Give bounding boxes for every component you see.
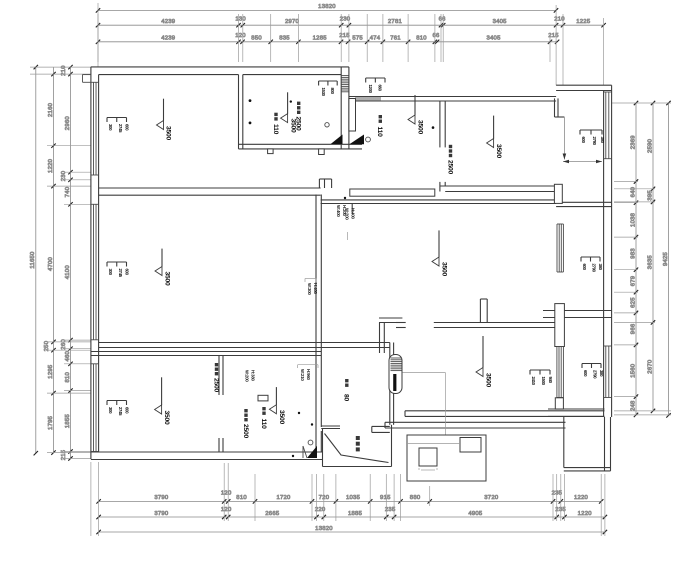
svg-text:395: 395 — [647, 190, 653, 201]
door jamb tab2 — [319, 149, 325, 155]
door leaf bath2 — [349, 99, 356, 132]
wall B corridor right — [321, 200, 556, 204]
label xiaChen80 stair — [343, 379, 350, 402]
svg-text:4100: 4100 — [65, 265, 71, 280]
svg-text:1038: 1038 — [630, 212, 636, 227]
svg-text:1225: 1225 — [576, 19, 591, 25]
svg-text:H:200: H:200 — [342, 205, 347, 217]
schedule dashed line — [407, 443, 460, 445]
wall wing top — [556, 85, 612, 90]
wall bedroom2 right pier — [555, 98, 565, 117]
svg-text:850: 850 — [251, 36, 262, 42]
window tag wing3 — [582, 364, 604, 380]
svg-text:1295: 1295 — [48, 364, 54, 379]
schedule inner square — [419, 448, 437, 466]
svg-text:110: 110 — [272, 124, 279, 135]
svg-text:2745: 2745 — [118, 124, 123, 133]
marker 3500 dining — [432, 230, 447, 276]
svg-text:640: 640 — [630, 186, 636, 197]
dimension right chain2 — [647, 101, 655, 413]
wall bedroom3 bottom outer — [385, 422, 566, 428]
window left W1 — [91, 82, 99, 175]
svg-text:720: 720 — [319, 495, 330, 501]
marker 3500 bedroom1 — [157, 99, 172, 141]
label xiaChen110 bath1 — [272, 113, 279, 135]
svg-text:2790: 2790 — [593, 370, 598, 379]
svg-text:600: 600 — [583, 370, 588, 377]
svg-text:1220: 1220 — [574, 495, 589, 501]
svg-text:1220: 1220 — [48, 158, 54, 173]
svg-text:1200: 1200 — [368, 85, 373, 94]
lintel above wall B — [350, 189, 435, 196]
window left W3 — [91, 364, 99, 452]
svg-text:W:200: W:200 — [245, 370, 250, 382]
svg-text:474: 474 — [370, 36, 381, 42]
schedule table box — [407, 435, 486, 481]
wall top-right-section — [349, 97, 556, 102]
wall left outer — [90, 67, 92, 459]
dimension top row1 total 13820 — [96, 4, 558, 12]
svg-text:915: 915 — [380, 495, 391, 501]
dimension right chain1 — [630, 101, 638, 417]
door swing black triangle bath2 — [349, 135, 364, 145]
svg-text:2160: 2160 — [48, 102, 54, 117]
svg-text:3405: 3405 — [486, 36, 501, 42]
wall wing bottom — [564, 468, 611, 471]
svg-text:W:210: W:210 — [300, 369, 305, 381]
svg-text:740: 740 — [65, 186, 71, 197]
svg-text:2500: 2500 — [212, 378, 219, 393]
window left W2 — [91, 204, 99, 339]
door swing black triangle bath1 — [331, 135, 343, 145]
svg-text:4239: 4239 — [161, 36, 175, 42]
pier bump wall A — [319, 179, 331, 188]
wall partition V1 bath1-left — [239, 75, 243, 149]
svg-text:1720: 1720 — [276, 495, 291, 501]
label W200 H400 dining — [345, 208, 356, 240]
window tag bath2 top — [366, 78, 385, 94]
svg-text:3500: 3500 — [163, 411, 170, 426]
svg-text:2745: 2745 — [118, 269, 123, 278]
svg-text:4239: 4239 — [161, 19, 175, 25]
svg-text:983: 983 — [630, 248, 636, 259]
svg-text:880: 880 — [410, 495, 421, 501]
svg-text:600: 600 — [124, 124, 129, 131]
wall corridor right jog — [379, 318, 402, 353]
dot bedroom2 — [432, 126, 435, 129]
svg-text:3405: 3405 — [493, 19, 508, 25]
wall M2b rooms top — [91, 352, 321, 356]
dimension left chain B — [44, 67, 56, 455]
wall wing right outer — [611, 85, 613, 417]
marker 3500 bath1 — [281, 92, 297, 133]
wall A corridor left — [99, 188, 321, 195]
fixture circle bath-bottom — [308, 440, 313, 445]
svg-text:2500: 2500 — [295, 117, 302, 132]
svg-text:4700: 4700 — [48, 256, 54, 271]
extension lines bottom — [91, 462, 605, 536]
svg-text:3500: 3500 — [440, 262, 447, 277]
dot bath1 c — [290, 100, 292, 102]
svg-text:380: 380 — [600, 137, 605, 144]
svg-text:11650: 11650 — [30, 251, 36, 269]
svg-text:3500: 3500 — [495, 144, 502, 159]
svg-text:H:380: H:380 — [251, 370, 256, 382]
svg-text:110: 110 — [376, 127, 383, 138]
svg-text:1855: 1855 — [65, 414, 71, 429]
svg-text:3500: 3500 — [165, 126, 172, 141]
pier wing left1 — [554, 184, 562, 203]
svg-text:3635: 3635 — [647, 255, 653, 270]
schedule inner rect — [460, 438, 481, 453]
dimension left chain C — [61, 65, 73, 461]
svg-text:13820: 13820 — [318, 4, 336, 10]
window wing right W4 — [604, 92, 612, 159]
door jamb tab1 — [268, 149, 274, 154]
svg-text:3500: 3500 — [164, 272, 171, 287]
window tag wing1 — [580, 130, 605, 146]
svg-text:3500: 3500 — [417, 120, 424, 135]
window tag wing2 — [581, 257, 603, 273]
svg-text:2590: 2590 — [647, 138, 653, 153]
svg-text:1560: 1560 — [630, 363, 636, 378]
svg-text:2745: 2745 — [118, 407, 123, 416]
sill mark top-left — [83, 75, 91, 83]
label menDongKuan2500 bedroom2 door — [446, 145, 453, 175]
stub elevator bottom-left — [321, 426, 340, 429]
wall bedroom3 top — [396, 323, 555, 328]
dimension top row3 chain — [96, 33, 560, 44]
wall bedroom2 left stub — [440, 182, 445, 192]
svg-text:600: 600 — [124, 269, 129, 276]
svg-text:W:400: W:400 — [336, 205, 341, 217]
dimension bottom row2 chain — [96, 507, 607, 519]
svg-text:2369: 2369 — [630, 135, 636, 149]
svg-text:66: 66 — [432, 33, 440, 39]
pier wing left2 — [555, 304, 565, 347]
svg-text:2500: 2500 — [242, 424, 249, 439]
svg-text:13820: 13820 — [315, 526, 333, 532]
partition stub below wall B — [351, 204, 353, 215]
wall living-right — [316, 195, 321, 428]
marker 3500 bedroom3 — [476, 336, 492, 388]
svg-text:1500: 1500 — [541, 377, 546, 386]
leader vertical with arrow bedroom2 — [563, 117, 567, 160]
wall M2a living bottom — [99, 343, 390, 348]
svg-text:300: 300 — [108, 407, 113, 414]
svg-text:2970: 2970 — [285, 19, 300, 25]
svg-text:3790: 3790 — [154, 511, 169, 517]
marker 3500 bath-bottom — [269, 387, 285, 424]
svg-text:248: 248 — [630, 400, 636, 411]
label W210 H960 near pill — [298, 365, 318, 382]
block wing left — [555, 398, 563, 409]
wall bedroom2 bottom — [440, 186, 555, 192]
svg-text:835: 835 — [279, 36, 290, 42]
dot bath-bottom — [292, 455, 294, 457]
wall bedroom2 left upper — [440, 101, 445, 147]
wall V2 bath1-bath2 — [341, 67, 349, 149]
svg-text:2665: 2665 — [265, 511, 280, 517]
svg-text:940: 940 — [548, 377, 553, 384]
dimension right total 9425 — [663, 101, 671, 418]
label W300 H400 living — [305, 279, 318, 296]
svg-text:120: 120 — [221, 507, 232, 513]
svg-text:9425: 9425 — [663, 251, 669, 266]
corner mark bath-bottom — [303, 446, 307, 458]
svg-text:2410: 2410 — [531, 377, 536, 386]
svg-text:1885: 1885 — [348, 511, 363, 517]
svg-text:130: 130 — [235, 17, 246, 23]
label menDongKuan2500 bath1 — [295, 102, 302, 131]
wall bottom-left bottom — [91, 452, 323, 460]
svg-text:966: 966 — [630, 323, 636, 334]
marker 3500 room-bottomleft — [155, 377, 170, 425]
dimension left total 11650 — [30, 65, 38, 456]
svg-text:2781: 2781 — [388, 19, 402, 25]
svg-text:3500: 3500 — [485, 373, 492, 388]
svg-text:2670: 2670 — [647, 359, 653, 374]
svg-text:625: 625 — [630, 297, 636, 308]
elevator door pill — [389, 355, 402, 394]
svg-text:1530: 1530 — [321, 88, 326, 97]
wall stair bottom — [323, 425, 392, 467]
window tag room-bottomleft — [107, 401, 129, 417]
label menDongKuan2500 room-bottomleft — [212, 363, 219, 393]
label menDongKuan2500 bath-bottom — [242, 409, 249, 439]
window wing right W5 — [604, 346, 612, 398]
elevator door dark bar — [393, 374, 396, 391]
svg-text:600: 600 — [124, 407, 129, 414]
marker 3500 bedroom2 — [487, 116, 502, 159]
svg-text:460: 460 — [65, 350, 71, 361]
svg-text:300: 300 — [108, 124, 113, 131]
svg-text:575: 575 — [352, 36, 363, 42]
svg-text:3790: 3790 — [154, 495, 169, 501]
svg-text:H:400: H:400 — [351, 208, 356, 220]
dot bath-bottom c — [311, 423, 313, 425]
window tag living — [107, 262, 129, 278]
svg-text:1035: 1035 — [346, 495, 361, 501]
stair diagonal polyline — [325, 434, 389, 463]
svg-text:380: 380 — [599, 370, 604, 377]
label dianTiJing elevator — [356, 436, 360, 451]
svg-text:80: 80 — [343, 394, 350, 402]
stub bedroom3 top — [480, 299, 487, 323]
marker 3500 living — [155, 249, 171, 286]
svg-text:110: 110 — [260, 419, 267, 430]
dot dining — [344, 197, 346, 199]
svg-text:800: 800 — [330, 88, 335, 95]
wall wing band h — [548, 409, 605, 416]
svg-text:679: 679 — [630, 276, 636, 287]
marker 3500 bath2 — [408, 95, 424, 135]
dimension bottom row1 chain — [96, 491, 603, 504]
stub elevator bottom-right — [372, 426, 390, 432]
svg-text:120: 120 — [235, 33, 246, 39]
label W200 H380 bath-bottom — [245, 370, 256, 382]
svg-text:600: 600 — [582, 264, 587, 271]
svg-text:2790: 2790 — [592, 264, 597, 273]
extension lines left — [30, 67, 91, 458]
wall top-left inner — [99, 74, 342, 76]
svg-text:2960: 2960 — [65, 116, 71, 131]
svg-text:H:960: H:960 — [306, 369, 311, 381]
window hatch top-right-section — [356, 97, 380, 102]
wall top-left outer — [91, 66, 349, 68]
extension lines top — [98, 3, 604, 85]
svg-text:2790: 2790 — [592, 137, 597, 146]
extension lines right — [612, 103, 671, 415]
door swing black triangle bath-bottom — [307, 446, 317, 458]
wall bath-bottom right — [316, 427, 321, 452]
window wing left W7 — [557, 347, 564, 398]
interior dim arrow right-wing — [563, 160, 602, 164]
svg-text:3500: 3500 — [278, 410, 285, 425]
stub in bottom bath — [258, 395, 268, 401]
svg-text:W:300: W:300 — [307, 283, 312, 295]
svg-text:66: 66 — [439, 17, 447, 23]
wall partition bottomleft-bath — [219, 356, 223, 452]
wall balcony left — [563, 416, 565, 467]
svg-text:660: 660 — [378, 85, 383, 92]
wall wing right inner — [603, 91, 605, 418]
svg-text:810: 810 — [416, 36, 427, 42]
svg-text:300: 300 — [108, 269, 113, 276]
svg-text:380: 380 — [598, 264, 603, 271]
svg-text:1795: 1795 — [48, 415, 54, 430]
wall wing divider1 — [556, 202, 612, 206]
svg-text:120: 120 — [221, 491, 232, 497]
svg-text:4905: 4905 — [468, 511, 483, 517]
schedule square ticks — [419, 468, 437, 470]
label xiaChen110 bath2 — [376, 115, 383, 137]
leader to schedule table — [403, 373, 446, 461]
svg-text:810: 810 — [236, 495, 247, 501]
svg-text:761: 761 — [390, 36, 401, 42]
elevator door hatch — [391, 358, 402, 371]
svg-text:3720: 3720 — [484, 495, 499, 501]
svg-text:1285: 1285 — [313, 36, 328, 42]
dimension top row2 chain — [96, 17, 606, 28]
wall balcony right — [605, 417, 611, 471]
svg-text:810: 810 — [65, 371, 71, 382]
wall wing divider2 — [543, 311, 612, 318]
window wing left W6 — [557, 224, 563, 272]
fixture circle bath2 — [366, 137, 371, 142]
label H400 top-right-corner — [336, 205, 347, 217]
window tag bath1 top — [319, 81, 338, 97]
window hatch wall V2 — [341, 76, 349, 92]
svg-text:600: 600 — [581, 137, 586, 144]
dot bath1 a — [249, 99, 252, 102]
fixture circle bath1 — [325, 123, 329, 127]
wall left inner — [98, 75, 100, 452]
window tag bedroom1 — [107, 118, 129, 134]
label xiaChen110 bath-bottom — [260, 407, 267, 429]
svg-text:1220: 1220 — [578, 511, 593, 517]
wall bedroom3 bottom inner — [405, 411, 605, 417]
window tag bedroom3 — [530, 370, 553, 386]
wall elevator right — [390, 343, 394, 425]
svg-text:H:400: H:400 — [313, 283, 318, 295]
dot bath1 b — [249, 122, 252, 125]
svg-text:2500: 2500 — [446, 160, 453, 175]
wall bath1 bottom — [239, 144, 363, 149]
dimension bottom row3 total 13820 — [96, 526, 607, 534]
dot bath-bottom b — [298, 412, 300, 414]
